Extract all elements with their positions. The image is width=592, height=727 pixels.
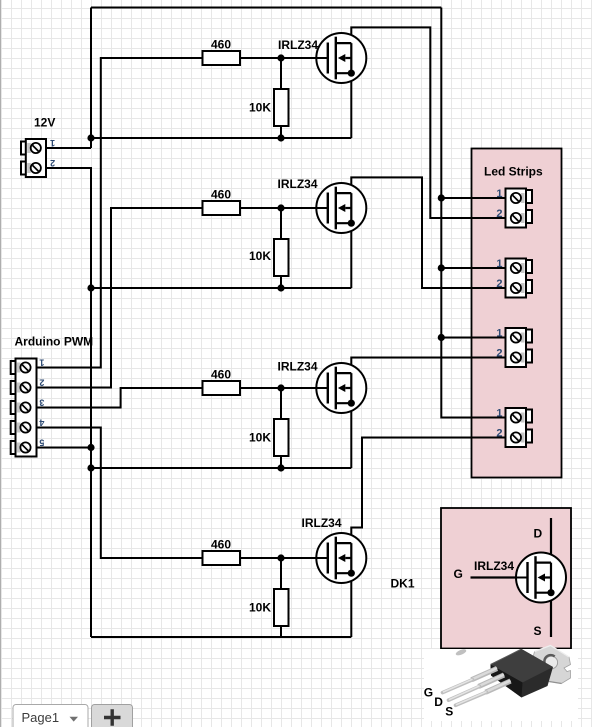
svg-text:D: D — [434, 695, 443, 709]
wire: stage1 10K leads — [280, 58, 282, 138]
svg-text:IRLZ34: IRLZ34 — [278, 38, 318, 52]
wire: stage4 10K leads — [280, 558, 282, 637]
svg-text:S: S — [445, 705, 453, 719]
svg-text:IRLZ34: IRLZ34 — [474, 559, 514, 573]
svg-text:460: 460 — [211, 538, 231, 552]
svg-text:2: 2 — [50, 158, 55, 168]
junction: stage2 10K bottom — [277, 284, 284, 291]
wire: LED2 pin1 stub — [441, 267, 505, 269]
svg-text:D: D — [534, 526, 543, 540]
resistor 10K stage2 — [274, 239, 289, 276]
svg-text:12V: 12V — [34, 116, 55, 130]
resistor 460 stage4 — [203, 551, 241, 565]
resistor 460 stage1 — [203, 51, 241, 65]
wire: M3 drain to LED3 pin2 — [351, 358, 505, 374]
junction: LED rail at pin1 conn3 — [438, 334, 445, 341]
junction: net B at rail2 — [87, 284, 94, 291]
transistor Q1 IRLZ34 — [316, 33, 366, 83]
wire: arduino pin5 to net B — [37, 447, 92, 449]
svg-text:1: 1 — [496, 408, 502, 420]
wire: LED3 pin1 stub — [441, 337, 505, 339]
svg-text:10K: 10K — [249, 249, 271, 263]
wire: DK1 inset drain-source line — [550, 518, 552, 637]
wire: M3 source to rail3 — [350, 403, 352, 468]
wire: M4 source to rail4 — [350, 573, 352, 637]
wire: M2 drain to LED2 pin2 — [351, 177, 505, 288]
junction: stage2 gate node — [277, 204, 284, 211]
photo white background — [424, 649, 578, 721]
transistor DK1 inset IRLZ34 symbol — [516, 553, 566, 603]
svg-text:2: 2 — [39, 378, 44, 388]
junction: stage3 gate node — [277, 384, 284, 391]
svg-text:10K: 10K — [249, 101, 271, 115]
svg-text:G: G — [454, 567, 463, 581]
svg-text:Page1: Page1 — [22, 710, 60, 725]
wire: stage1 rail — [91, 137, 351, 139]
wire: 12V pin1 to junction — [46, 147, 91, 149]
connector LED strip 1 — [496, 188, 532, 228]
wire: LED1 pin1 stub — [441, 197, 505, 199]
svg-text:S: S — [534, 624, 542, 638]
photo: leg S — [486, 681, 511, 692]
connector LED strip 3 — [496, 328, 532, 368]
svg-text:IRLZ34: IRLZ34 — [278, 177, 318, 191]
wire: arduino pin4 to stage4 gate — [37, 428, 203, 559]
junction: stage3 10K bottom — [277, 464, 284, 471]
svg-text:1: 1 — [39, 358, 44, 368]
photo: body edge highlight — [491, 649, 522, 665]
transistor Q4 IRLZ34 — [316, 533, 366, 583]
svg-text:460: 460 — [211, 188, 231, 202]
svg-text:1: 1 — [496, 328, 502, 340]
wire: DK1 inset gate lead — [471, 576, 529, 578]
svg-text:460: 460 — [211, 38, 231, 52]
svg-text:1: 1 — [496, 258, 502, 270]
svg-text:2: 2 — [496, 208, 502, 220]
photo: black body front face — [491, 665, 523, 698]
svg-text:IRLZ34: IRLZ34 — [302, 516, 342, 530]
junction: net B at arduino pin5 — [87, 444, 94, 451]
wire: stage2 10K leads — [280, 208, 282, 288]
svg-text:2: 2 — [496, 278, 502, 290]
resistor 460 stage3 — [203, 381, 241, 395]
junction: stage1 gate node — [277, 54, 284, 61]
photo: black body top face — [491, 649, 554, 683]
wire: stage3 10K leads — [280, 388, 282, 468]
svg-text:460: 460 — [211, 368, 231, 382]
wire: arduino pin1 to stage1 gate — [37, 58, 203, 368]
svg-text:IRLZ34: IRLZ34 — [278, 360, 318, 374]
svg-text:1: 1 — [496, 188, 502, 200]
svg-text:G: G — [424, 686, 433, 700]
transistor Q2 IRLZ34 — [316, 183, 366, 233]
resistor 10K stage3 — [274, 419, 289, 456]
junction: LED rail at pin1 conn2 — [438, 264, 445, 271]
connector LED strip 2 — [496, 258, 532, 298]
photo: black body — [491, 649, 554, 698]
svg-text:4: 4 — [39, 418, 44, 428]
photo: leg G — [472, 669, 498, 680]
wire: M2 source to rail2 — [350, 223, 352, 288]
svg-text:Led Strips: Led Strips — [484, 165, 543, 179]
svg-text:10K: 10K — [249, 431, 271, 445]
svg-text:10K: 10K — [249, 601, 271, 615]
photo: leg D — [479, 675, 505, 687]
wire: M1 source to rail1 — [350, 73, 352, 138]
photo: tab tip peeking below box edge — [455, 648, 467, 657]
wire: stage2 460 to gate — [240, 207, 316, 209]
wire: M1 drain to LED1 pin2 — [351, 27, 505, 218]
connector LED strip 4 — [496, 408, 532, 448]
connector J1 12V supply terminal — [21, 116, 55, 178]
page tab Page1 — [13, 705, 88, 727]
resistor 10K stage1 — [274, 89, 289, 126]
junction: LED rail at pin1 conn1 — [438, 194, 445, 201]
svg-text:1: 1 — [50, 138, 55, 148]
svg-text:3: 3 — [39, 398, 44, 408]
svg-text:2: 2 — [496, 348, 502, 360]
resistor 460 stage2 — [203, 201, 241, 215]
svg-text:Arduino PWM: Arduino PWM — [15, 335, 94, 349]
wire: stage3 460 to gate — [240, 387, 316, 389]
connector J2 Arduino PWM terminal — [11, 335, 93, 457]
resistor 10K stage4 — [274, 589, 289, 626]
wire: stage1 460 to gate — [240, 57, 316, 59]
transistor Q3 IRLZ34 — [316, 363, 366, 413]
DK1 pink box — [441, 508, 571, 649]
wire: stage3 rail — [91, 467, 351, 469]
junction: stage1 10K bottom — [277, 134, 284, 141]
photo: tab hole — [545, 656, 558, 669]
wire: net A vertical x=91 top — [90, 8, 92, 149]
wire: M4 drain jog to LED4 pin2 — [351, 438, 505, 544]
junction: net A at 12V pin1 / rail1 — [87, 134, 94, 141]
Led Strips container box — [472, 149, 562, 478]
wire: 12V pin2 down net B — [46, 168, 91, 637]
wire: LED pin1 rail x=441.3 — [441, 8, 505, 418]
page left edge — [0, 0, 2, 727]
svg-text:2: 2 — [496, 428, 502, 440]
svg-text:5: 5 — [39, 438, 44, 448]
photo: metal tab — [533, 646, 571, 684]
add page button — [92, 705, 133, 727]
wire: arduino pin2 to stage2 gate — [37, 208, 203, 388]
junction: stage4 gate node — [277, 554, 284, 561]
wire: stage4 460 to gate — [240, 557, 316, 559]
junction: net B at rail3 — [87, 464, 94, 471]
wire: arduino pin3 to stage3 gate — [37, 388, 203, 408]
wire: stage2 rail — [91, 287, 351, 289]
svg-text:DK1: DK1 — [391, 577, 415, 591]
wire: stage4 rail — [91, 636, 351, 638]
wire: top rail net A (12V.1) y=7.5 — [91, 7, 441, 9]
